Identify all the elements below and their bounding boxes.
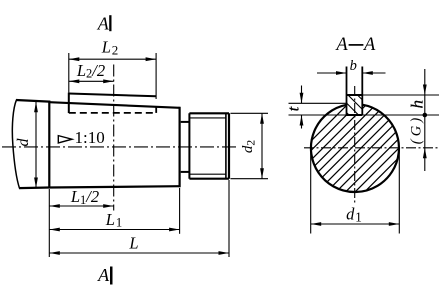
cone end face xyxy=(179,107,181,187)
key left end edge xyxy=(68,93,70,113)
extension line cone end xyxy=(179,188,181,234)
neck top edge xyxy=(181,121,190,123)
thread end face xyxy=(228,113,230,178)
surface tangent extension left xyxy=(289,102,348,104)
key top edge xyxy=(69,94,156,97)
thread section bottom edge xyxy=(189,178,229,180)
section horizontal centerline xyxy=(304,147,438,149)
neck bottom edge xyxy=(181,171,190,173)
svg-text:(G): (G) xyxy=(409,115,425,145)
keyway hidden bottom line xyxy=(69,112,156,114)
dimension h and G chain line xyxy=(408,69,428,171)
keyway hidden right end xyxy=(155,107,157,113)
dimension L2/2 xyxy=(69,61,114,83)
svg-text:L1: L1 xyxy=(105,210,122,230)
dimension L xyxy=(49,233,229,255)
thread section top edge xyxy=(189,112,229,114)
svg-text:1:10: 1:10 xyxy=(75,128,105,147)
svg-text:t: t xyxy=(286,106,303,111)
svg-text:d2: d2 xyxy=(240,140,258,154)
cone top edge xyxy=(49,102,179,108)
keyway slot right side V2 xyxy=(361,67,363,116)
svg-text:A: A xyxy=(97,13,110,33)
svg-text:h: h xyxy=(408,100,427,109)
shaft hatching xyxy=(256,96,441,196)
key top edge section xyxy=(347,94,363,96)
slot bottom chord xyxy=(347,114,363,116)
extension line shaft end xyxy=(228,180,230,257)
svg-text:A: A xyxy=(362,35,376,55)
thread root line top xyxy=(190,117,226,119)
key top extension right xyxy=(362,94,439,96)
dimension L2 xyxy=(69,38,156,99)
section marker A bottom xyxy=(97,265,112,285)
section vertical centerline xyxy=(354,86,356,205)
shaft top edge left segment xyxy=(16,100,49,102)
svg-text:d: d xyxy=(15,138,32,147)
slot bottom extension right xyxy=(362,114,439,116)
shaft axis centerline xyxy=(2,146,237,148)
slot bottom extension left xyxy=(289,114,347,116)
thread section left edge xyxy=(188,113,190,178)
dimension L1/2 xyxy=(49,187,113,208)
taper symbol xyxy=(58,136,72,143)
cone bottom edge xyxy=(49,186,179,187)
svg-text:L1/2: L1/2 xyxy=(70,187,99,207)
dimension L1 xyxy=(49,210,179,232)
svg-text:A: A xyxy=(97,265,110,285)
svg-text:d1: d1 xyxy=(346,204,362,224)
extension line left xyxy=(48,189,50,257)
svg-text:L: L xyxy=(128,233,138,252)
key cross-section hatching xyxy=(340,78,366,133)
thread chamfer line xyxy=(225,113,227,178)
svg-text:L2: L2 xyxy=(101,38,118,58)
section marker A top xyxy=(97,13,112,33)
svg-text:b: b xyxy=(350,58,357,74)
keyway slot left side V1 xyxy=(346,67,348,116)
dimension d2 xyxy=(231,113,269,178)
dimension b xyxy=(317,58,386,75)
dimension d1 xyxy=(311,150,400,234)
thread root line bottom xyxy=(190,173,226,175)
dimension d xyxy=(15,102,38,188)
shaft bottom edge left segment xyxy=(19,186,49,189)
section circle d1 xyxy=(311,105,399,192)
section title A-A xyxy=(334,35,376,55)
wavy break line xyxy=(12,100,19,189)
cone start vertical edge xyxy=(48,101,50,189)
svg-text:L2/2: L2/2 xyxy=(76,61,105,81)
svg-text:A: A xyxy=(334,35,348,55)
dimension t xyxy=(286,86,304,129)
keyway center line xyxy=(113,65,115,211)
